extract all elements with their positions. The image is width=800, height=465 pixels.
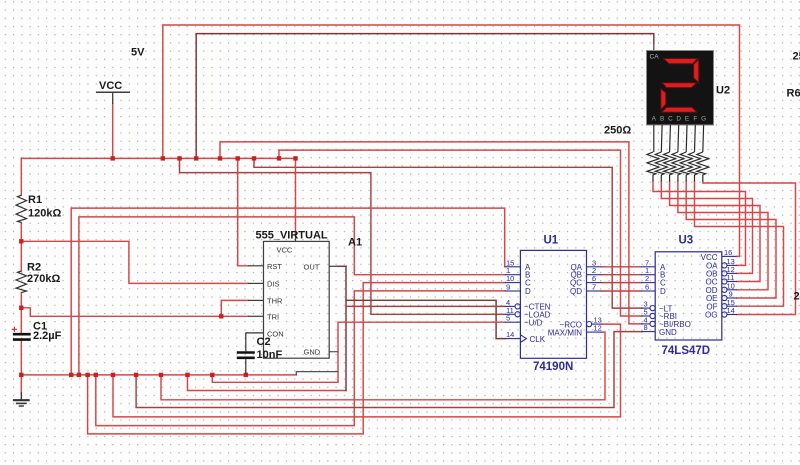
wire QA to U3 A [602,266,642,268]
wire OUT to U1 CLK pin14 [346,300,505,338]
wire U3 GND pin8 to ground bus hook [136,332,642,408]
svg-text:74190N: 74190N [533,361,573,373]
svg-text:RST: RST [267,262,282,271]
svg-text:555_VIRTUAL: 555_VIRTUAL [256,230,328,242]
display segment letters [652,116,706,123]
svg-text:MAX/MIN: MAX/MIN [548,328,582,337]
555 pin stubs [248,44,654,317]
wire OUT stub red part [338,265,347,267]
svg-text:D: D [525,287,531,296]
wire segment E resistor to U3 OE [686,182,776,299]
svg-text:U2: U2 [716,85,730,97]
C2 leads to 555 CON and ground bus [246,333,264,374]
wire 555 GND stub to column [329,351,338,353]
555 pin labels [267,246,321,357]
svg-text:74LS47D: 74LS47D [662,345,711,357]
svg-text:14: 14 [727,306,735,315]
U3 pin names [659,253,718,337]
display U2 body [647,51,714,126]
svg-text:U3: U3 [679,235,694,247]
wire net G: bus to U3 ~RBI pin5 [279,150,642,316]
wire DIS net: R1/R2 junction to 555 DIS [21,241,248,283]
wire segment C resistor to U3 OC [670,182,760,282]
wire OUT net column [345,266,347,390]
wire QB to U3 B [602,274,642,276]
wire net B: bus to U1 ~LOAD pin11 [180,158,506,314]
node R1/R2 junction [19,239,23,243]
svg-text:GND: GND [659,328,677,337]
node THR/TRI junction [219,314,223,318]
wire 5V net: bus up, across top, down right side to U3 VCC pin16 [163,25,740,256]
svg-text:CA: CA [650,54,660,61]
svg-text:G: G [701,116,706,123]
U1 pin names [524,263,583,344]
node ground bus junctions [19,373,23,377]
svg-text:12: 12 [594,324,602,333]
svg-text:5: 5 [506,314,510,323]
svg-text:7: 7 [592,283,596,292]
wire segment B resistor to U3 OB [661,182,752,274]
capacitor C2 [237,353,255,358]
svg-text:6: 6 [645,283,649,292]
wire segment F resistor to U3 OF [695,182,784,307]
U3 pin stubs [641,256,737,331]
ground symbol [13,392,30,406]
svg-text:250Ω: 250Ω [604,125,631,137]
svg-text:A1: A1 [348,237,362,249]
svg-text:10nF: 10nF [257,349,283,361]
wire segment D resistor to U3 OD [678,182,768,290]
svg-text:5V: 5V [131,47,145,59]
wire R1 bottom to junction [20,223,22,242]
svg-text:OUT: OUT [304,262,320,271]
decoder U3 74LS47D box [655,252,722,340]
display leads [654,125,704,152]
wire ground bus [21,374,296,376]
svg-text:CLK: CLK [530,335,546,344]
junction dots [19,156,298,377]
resistor network 250 ohm (7 zigzags) [647,152,709,182]
wire U1 A pin15 feeder from ground bus [71,208,505,375]
wire net E: bus down to 555 RST [238,158,248,265]
wire VCC top bus [21,157,295,159]
capacitor C1 (polarized) [13,334,31,339]
svg-text:THR: THR [267,296,283,305]
wire THR hook down to TRI net [221,300,248,316]
power VCC symbol [96,92,130,104]
U1 pin numbers [506,258,602,339]
svg-text:F: F [693,116,697,123]
svg-text:C2: C2 [257,336,271,348]
wire OUT net hook to ground bus [188,375,347,391]
wire net D: bus to U3 ~BI/RBO pin4 [220,142,642,324]
svg-text:2.2µF: 2.2µF [33,330,62,342]
svg-text:120kΩ: 120kΩ [28,208,61,220]
wire net F: bus to U3 ~LT pin3 [254,158,642,308]
svg-text:C: C [668,116,673,123]
svg-text:25: 25 [793,51,800,63]
wire 555 GND to bus end L [296,372,338,375]
svg-text:16: 16 [724,248,732,257]
svg-text:GND: GND [304,348,321,357]
svg-text:R6: R6 [787,88,800,100]
svg-text:E: E [685,116,689,123]
svg-text:TRI: TRI [267,312,279,321]
wire R1 top drop from bus [20,158,22,195]
wire junction to R2 top [20,241,22,271]
U3 pin numbers [644,248,735,332]
svg-text:8: 8 [644,323,648,332]
wire U1 ~RCO pin13 to ground bus hook [113,324,621,417]
svg-text:VCC: VCC [277,246,293,255]
wire C1 bottom to ground bus [20,341,22,375]
wire ground stub [20,375,22,393]
wire segment G resistor to U3 OG [703,182,796,315]
wire ~U/D + 555 GND net hook [212,322,505,382]
svg-text:QD: QD [570,287,582,296]
wire junction2 down to C1 [20,308,22,333]
wire net CA: bus across top to display common anode [196,34,654,159]
svg-text:270kΩ: 270kΩ [27,273,60,285]
wire OUT to U1 ~CTEN pin4 [346,305,505,307]
counter U1 74190N box [520,250,586,358]
wire TRI net: R2/C1 junction to 555 TRI [21,308,248,317]
svg-text:D: D [660,287,666,296]
U1 pin stubs [505,267,602,343]
resistor R2 [16,271,26,293]
wire U1 B pin1 feeder from ground bus [79,217,505,375]
svg-text:~U/D: ~U/D [524,318,543,327]
C1 plus sign [12,327,17,332]
resistor R1 [16,195,26,222]
svg-text:B: B [660,116,664,123]
node VCC bus junctions [111,156,115,160]
svg-text:9: 9 [506,283,510,292]
svg-text:OG: OG [705,311,717,320]
display digit 2 segments [661,59,699,113]
svg-text:14: 14 [506,330,514,339]
wire net H: bus down to 555 VCC pin [295,158,297,233]
wire U1 MAX/MIN pin12 to ground bus hook [161,332,605,400]
node R2/C1 junction [19,306,23,310]
svg-text:D: D [676,116,681,123]
wire R2 bottom to junction2 [20,293,22,308]
wire QD to U3 D [602,290,642,292]
wire U1 C pin10 feeder via bottom hook [88,283,505,434]
wire segment A resistor to U3 OA [653,182,746,266]
svg-text:U1: U1 [544,235,559,247]
svg-text:25: 25 [794,291,800,303]
svg-text:R2: R2 [27,262,41,274]
op-amp/timer 555 A1 box [264,241,330,358]
wire QC to U3 C [602,282,642,284]
svg-text:VCC: VCC [99,80,122,92]
svg-text:A: A [652,116,657,123]
svg-text:R1: R1 [28,194,42,206]
wire VCC symbol lead (red part) [112,104,114,159]
wire U1 D pin9 feeder via bottom hook [96,291,505,426]
svg-text:DIS: DIS [267,279,280,288]
